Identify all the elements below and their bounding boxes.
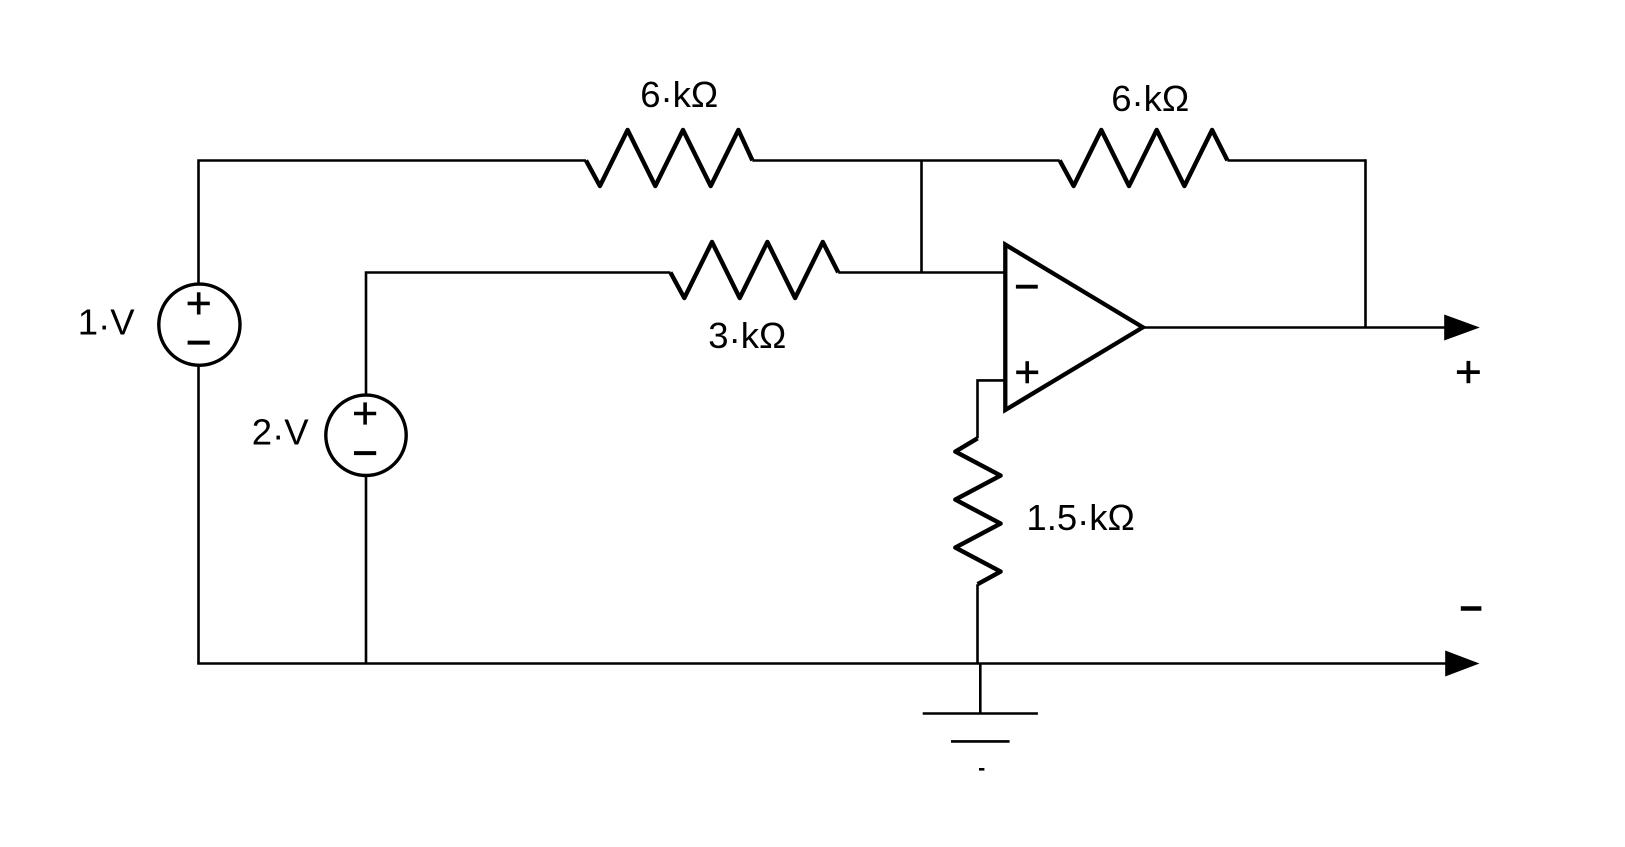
op-amp output wire bbox=[1143, 326, 1446, 329]
arrowhead bottom output bbox=[1445, 651, 1479, 677]
V2 minus mark bbox=[354, 451, 376, 455]
V1 plus mark bbox=[188, 292, 210, 314]
voltage source V1 1V circle bbox=[159, 284, 240, 365]
wire 2V source top to 3k resistor bbox=[366, 273, 670, 395]
svg-text:6·kΩ: 6·kΩ bbox=[640, 74, 718, 118]
resistor R2 6k feedback zigzag bbox=[1060, 130, 1228, 186]
wire 3k to op-amp inverting input bbox=[838, 271, 1005, 274]
resistor R1 6k top-left zigzag bbox=[586, 130, 752, 186]
wire op-amp noninverting input to 1.5k resistor bbox=[978, 380, 1006, 438]
V2 plus mark bbox=[354, 402, 376, 424]
wire top-left horizontal from 1V source top to 6k resistor bbox=[199, 161, 587, 284]
wire feedback right vertical down to output bbox=[1364, 159, 1367, 327]
voltage source V2 2V circle bbox=[326, 395, 406, 475]
output minus terminal label bbox=[1461, 606, 1482, 610]
svg-text:3·kΩ: 3·kΩ bbox=[708, 315, 786, 359]
wire 1V source bottom to bottom rail bbox=[197, 366, 200, 664]
svg-text:1·V: 1·V bbox=[78, 301, 135, 345]
resistor R4 1.5k vertical zigzag bbox=[955, 438, 1000, 584]
wire 1.5k resistor to ground rail bbox=[976, 584, 979, 663]
arrowhead top output bbox=[1444, 315, 1480, 341]
resistor R3 3k zigzag bbox=[670, 242, 838, 298]
node junction vertical between top wire and inverting wire bbox=[920, 161, 923, 273]
op-amp minus input label bbox=[1016, 285, 1038, 289]
V1 minus mark bbox=[188, 341, 210, 345]
svg-text:6·kΩ: 6·kΩ bbox=[1111, 78, 1189, 122]
wire from R1 to feedback junction and R2 bbox=[752, 159, 1059, 162]
ground bbox=[923, 664, 1038, 770]
wire from R2 to right corner bbox=[1227, 159, 1365, 162]
svg-text:2·V: 2·V bbox=[252, 411, 309, 455]
op-amp plus input label bbox=[1016, 361, 1038, 383]
output plus terminal label bbox=[1457, 361, 1480, 383]
wire 2V source bottom to bottom rail bbox=[365, 476, 368, 664]
bottom rail wire with output arrow bbox=[197, 662, 1446, 665]
svg-text:1.5·kΩ: 1.5·kΩ bbox=[1026, 497, 1134, 541]
op-amp U1 triangle bbox=[1005, 245, 1143, 410]
